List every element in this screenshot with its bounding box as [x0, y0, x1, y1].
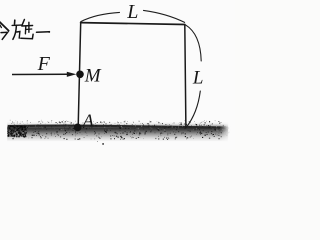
- svg-text:A: A: [82, 110, 95, 130]
- point A: [74, 124, 82, 132]
- svg-text:L: L: [192, 67, 204, 88]
- force arrow F: [12, 72, 76, 77]
- square top edge: [81, 23, 185, 25]
- brace L right (two arcs with gap): [185, 25, 201, 128]
- square right edge: [185, 25, 186, 128]
- text 今施一 (hand-drawn strokes, first char clipped at left edge): [0, 20, 50, 40]
- point M: [76, 71, 84, 79]
- svg-text:F: F: [37, 53, 51, 75]
- 施: [14, 20, 16, 24]
- square left edge: [78, 23, 81, 126]
- paper background: [0, 0, 235, 149]
- brace L top (two shallow arcs with gap): [81, 10, 185, 22]
- partial 今: [0, 25, 1, 28]
- 一: [37, 31, 50, 34]
- svg-text:M: M: [84, 66, 102, 87]
- ground: [7, 118, 235, 145]
- svg-text:L: L: [126, 1, 138, 23]
- square block outline: [78, 23, 186, 128]
